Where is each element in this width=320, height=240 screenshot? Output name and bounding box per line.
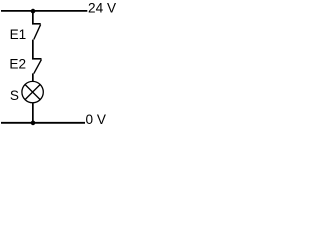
svg-text:24 V: 24 V — [88, 0, 116, 15]
svg-text:E1: E1 — [10, 27, 27, 42]
svg-text:S: S — [10, 88, 19, 103]
svg-text:0 V: 0 V — [86, 112, 106, 127]
svg-text:E2: E2 — [9, 56, 26, 71]
